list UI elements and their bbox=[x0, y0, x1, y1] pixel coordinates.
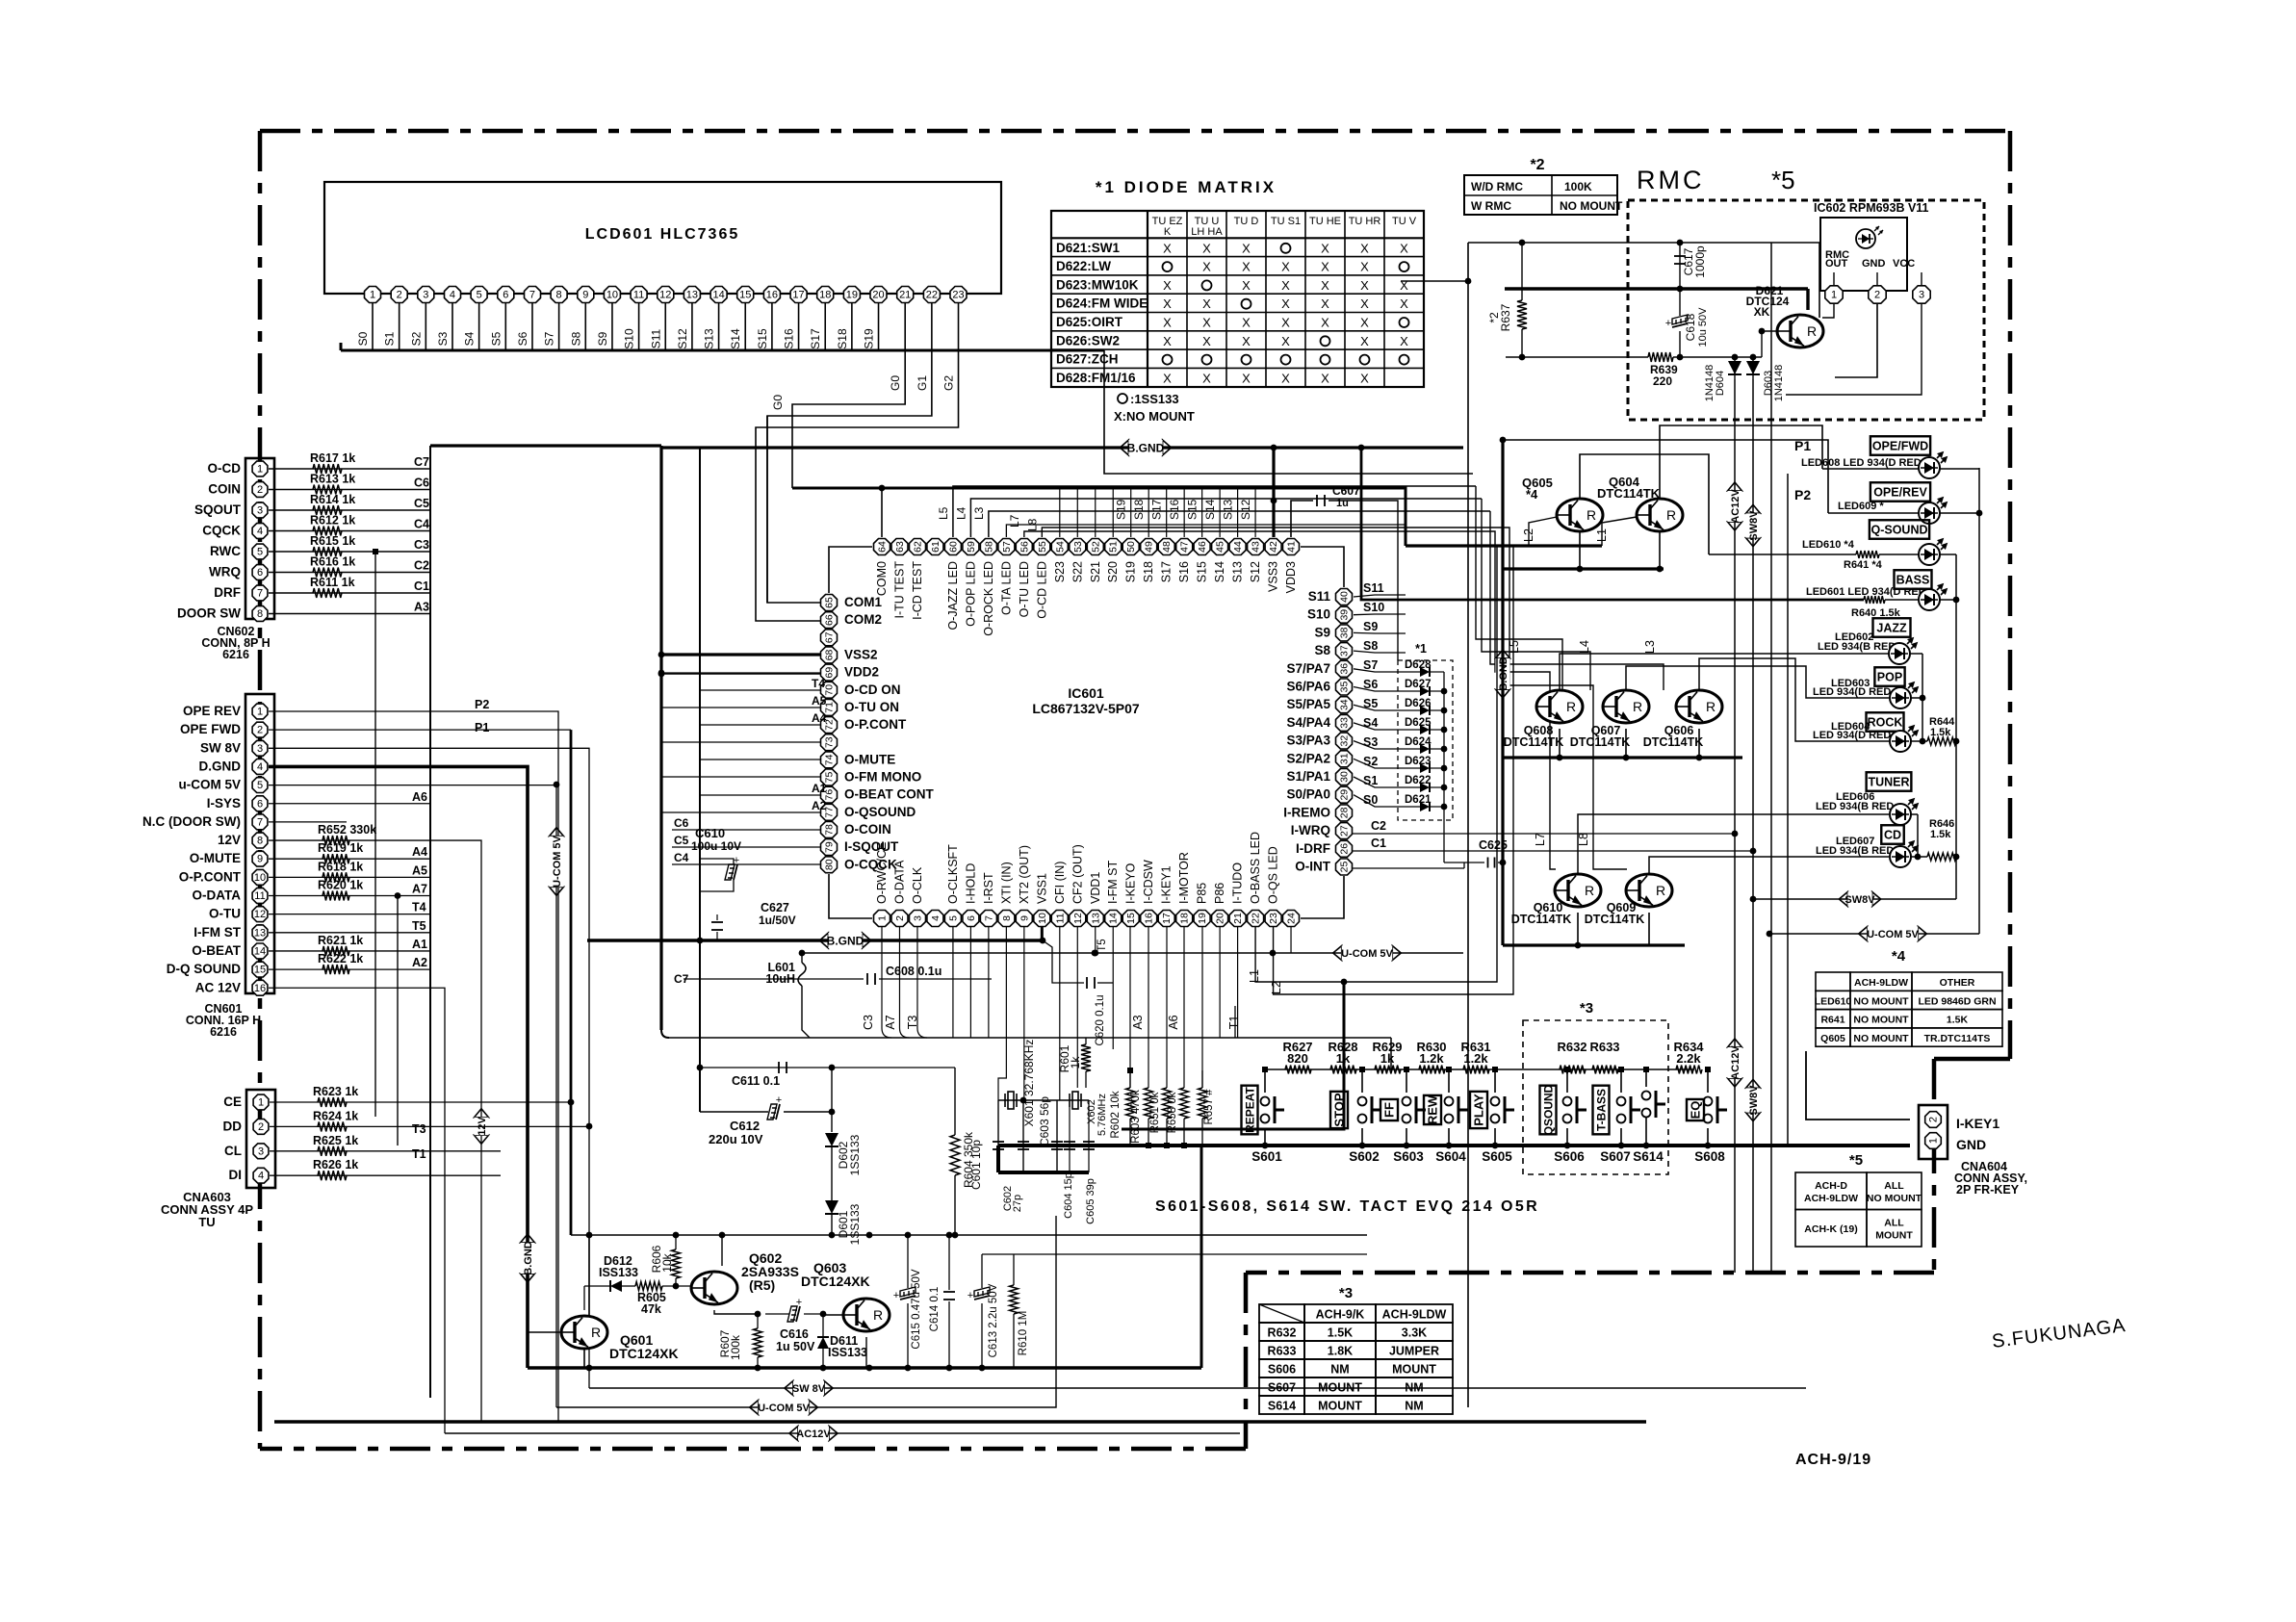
svg-text:P2: P2 bbox=[475, 698, 489, 711]
transistor Q606 DTC114TK bbox=[1676, 690, 1722, 723]
svg-text:DTC114TK: DTC114TK bbox=[1511, 913, 1572, 926]
svg-text:DTC114TK: DTC114TK bbox=[1597, 486, 1661, 501]
CN601 pin 12 bbox=[252, 907, 268, 922]
node C2 bbox=[1353, 833, 1735, 835]
svg-text:40: 40 bbox=[1339, 591, 1351, 603]
svg-text:S15: S15 bbox=[1196, 561, 1209, 582]
svg-text:A2: A2 bbox=[412, 956, 427, 969]
svg-text:ACH-D: ACH-D bbox=[1815, 1180, 1847, 1192]
node A5 bbox=[661, 707, 820, 708]
svg-text:33: 33 bbox=[1339, 717, 1351, 729]
wire collector rail bbox=[571, 1234, 722, 1236]
resistor R631 1.2k bbox=[1463, 1066, 1489, 1074]
svg-text:B.GND: B.GND bbox=[523, 1241, 534, 1275]
wire pin8 to X601 bbox=[998, 927, 1006, 1100]
svg-text:S603: S603 bbox=[1393, 1149, 1424, 1164]
svg-text:I-TUDO: I-TUDO bbox=[1231, 862, 1245, 904]
CN601 pin 9 bbox=[252, 851, 268, 866]
svg-text:13: 13 bbox=[1090, 913, 1101, 924]
node S3 bbox=[1354, 741, 1401, 749]
svg-text:16: 16 bbox=[766, 290, 778, 301]
CNA603 pin 3 bbox=[253, 1144, 269, 1159]
wire base L2 bbox=[1529, 517, 1557, 546]
resistor R602 10k bbox=[1126, 1088, 1135, 1119]
wire L4 O-POP LED bbox=[970, 499, 1482, 537]
wire Q602 collector bbox=[714, 1310, 758, 1314]
svg-text:59: 59 bbox=[966, 541, 977, 553]
svg-text:6216: 6216 bbox=[210, 1025, 237, 1039]
svg-text:B.GND: B.GND bbox=[1127, 441, 1165, 454]
svg-text:LCD601 HLC7365: LCD601 HLC7365 bbox=[585, 226, 740, 243]
svg-text:R610 1M: R610 1M bbox=[1018, 1311, 1029, 1356]
wire L8 O-CD LED bbox=[1042, 528, 1593, 842]
svg-text:31: 31 bbox=[1339, 753, 1351, 764]
capacitor C608 0.1u bbox=[661, 673, 820, 675]
switch S614 T-BASS bbox=[1645, 1069, 1647, 1087]
svg-text:I-WRQ: I-WRQ bbox=[1291, 823, 1330, 837]
svg-text:220: 220 bbox=[1653, 374, 1672, 388]
svg-text:13: 13 bbox=[254, 927, 266, 939]
svg-text:2: 2 bbox=[258, 1121, 264, 1133]
svg-text:I-CDSW: I-CDSW bbox=[1142, 860, 1155, 904]
svg-text:OPE/REV: OPE/REV bbox=[1873, 486, 1927, 500]
svg-text:14: 14 bbox=[712, 290, 724, 301]
node C5 bbox=[672, 846, 820, 848]
LED LED601 bbox=[1919, 589, 1940, 610]
IC601 pin 2 bbox=[891, 911, 908, 927]
svg-text:57: 57 bbox=[1001, 541, 1013, 553]
capacitor C607 1uF bbox=[1316, 495, 1318, 506]
node S10 bbox=[1354, 613, 1406, 616]
IC601 pin 66 bbox=[821, 612, 838, 629]
svg-text:*2: *2 bbox=[1530, 157, 1544, 173]
svg-text:Q605: Q605 bbox=[1820, 1033, 1845, 1044]
svg-text:S20: S20 bbox=[1106, 561, 1120, 582]
wire long verticals bbox=[1467, 281, 1469, 1407]
svg-text:R620 1k: R620 1k bbox=[318, 879, 363, 892]
svg-text:S13: S13 bbox=[1222, 499, 1235, 520]
svg-text:(R5): (R5) bbox=[749, 1277, 775, 1293]
svg-text:S7/PA7: S7/PA7 bbox=[1286, 661, 1330, 676]
svg-text:S602: S602 bbox=[1349, 1149, 1380, 1164]
LCD pin 14 bbox=[710, 287, 727, 303]
CN602 pin 3 bbox=[252, 502, 268, 518]
svg-text:3: 3 bbox=[258, 1146, 264, 1157]
svg-text:4: 4 bbox=[258, 1171, 264, 1182]
svg-text:820: 820 bbox=[1287, 1051, 1308, 1066]
svg-text:X: X bbox=[1202, 371, 1211, 385]
svg-text:W/D RMC: W/D RMC bbox=[1471, 180, 1523, 193]
connector CNA603 CONN ASSY 4P TU bbox=[246, 1090, 275, 1188]
wire POP row right bbox=[1911, 697, 1922, 699]
svg-text:ACH-9LDW: ACH-9LDW bbox=[1804, 1193, 1858, 1204]
svg-text:C614 0.1: C614 0.1 bbox=[929, 1287, 941, 1332]
LED Q-SOUND box bbox=[1870, 520, 1929, 539]
svg-text:14: 14 bbox=[254, 945, 266, 957]
svg-text:19: 19 bbox=[846, 290, 858, 301]
IC601 pin 52 bbox=[1087, 539, 1103, 555]
svg-text:X: X bbox=[1163, 278, 1172, 293]
svg-text:R658 0k: R658 0k bbox=[1167, 1092, 1178, 1133]
wire to B.GND rail bbox=[1467, 243, 1469, 281]
IC601 pin 33 bbox=[1336, 714, 1353, 731]
svg-text:X:NO MOUNT: X:NO MOUNT bbox=[1114, 409, 1195, 424]
wire junction bbox=[373, 549, 378, 554]
wire bbox=[269, 551, 430, 553]
svg-text:67: 67 bbox=[824, 631, 836, 643]
svg-text:S4: S4 bbox=[1363, 716, 1378, 730]
svg-text:S14: S14 bbox=[1203, 499, 1217, 520]
svg-text:TU HE: TU HE bbox=[1309, 216, 1341, 227]
IC601 pin 51 bbox=[1105, 539, 1122, 555]
svg-text:S7: S7 bbox=[1363, 658, 1378, 672]
LCD pin 16 bbox=[763, 287, 780, 303]
svg-text:SW8V: SW8V bbox=[1845, 894, 1875, 906]
resistor R614 1k bbox=[313, 505, 342, 515]
LCD pin 20 bbox=[870, 287, 887, 303]
svg-text:S5/PA5: S5/PA5 bbox=[1286, 697, 1330, 711]
svg-text:VSS2: VSS2 bbox=[844, 647, 878, 661]
svg-text:10: 10 bbox=[1037, 913, 1048, 924]
wire COM0 bbox=[881, 488, 883, 537]
svg-text:LED609 *: LED609 * bbox=[1838, 501, 1884, 512]
svg-text:CQCK: CQCK bbox=[202, 524, 241, 538]
resistor R633 bbox=[1592, 1066, 1618, 1074]
svg-text:32: 32 bbox=[1339, 735, 1351, 747]
wire G1 bbox=[767, 354, 932, 603]
svg-text:A5: A5 bbox=[412, 863, 427, 877]
wire ROCK row right bbox=[1911, 740, 1927, 742]
svg-text:38: 38 bbox=[1339, 627, 1351, 638]
wire risers bbox=[1055, 1216, 1057, 1235]
IC601 pin 45 bbox=[1212, 539, 1228, 555]
IC601 pin 8 bbox=[998, 911, 1015, 927]
svg-text:S3: S3 bbox=[436, 331, 450, 346]
svg-text:ACH-9LDW: ACH-9LDW bbox=[1382, 1308, 1447, 1322]
net U-COM 5V bbox=[550, 828, 564, 896]
svg-text:R641: R641 bbox=[1820, 1015, 1845, 1026]
svg-text:S22: S22 bbox=[1071, 561, 1084, 582]
svg-text:R617 1k: R617 1k bbox=[310, 451, 355, 465]
CN602 pin 2 bbox=[252, 482, 268, 498]
wire pin13 VDD1 bbox=[1095, 927, 1096, 953]
svg-text:9: 9 bbox=[1019, 915, 1030, 921]
svg-text:OUT: OUT bbox=[1825, 258, 1848, 270]
svg-text:P1: P1 bbox=[475, 721, 489, 734]
svg-text:G0: G0 bbox=[889, 375, 902, 391]
svg-text:1: 1 bbox=[257, 464, 263, 476]
svg-text:PLAY: PLAY bbox=[1472, 1094, 1486, 1126]
resistor R601 1k bbox=[1081, 1044, 1091, 1071]
wire pins 15-19 to resistors bbox=[1129, 927, 1131, 1088]
net AC12V bbox=[1728, 1039, 1742, 1087]
svg-text:NO MOUNT: NO MOUNT bbox=[1853, 995, 1909, 1007]
IC601 pin 53 bbox=[1070, 539, 1086, 555]
svg-text:S18: S18 bbox=[836, 328, 849, 349]
svg-text:1SS133: 1SS133 bbox=[848, 1134, 862, 1175]
wire pin24 bbox=[1290, 927, 1292, 953]
svg-text:NM: NM bbox=[1405, 1381, 1423, 1395]
IC601 pin 31 bbox=[1336, 751, 1353, 767]
IC601 pin 17 bbox=[1158, 911, 1174, 927]
node S9 bbox=[1354, 631, 1406, 634]
IC601 pin 55 bbox=[1034, 539, 1050, 555]
IC601 pin 76 bbox=[821, 786, 838, 803]
svg-text:CE: CE bbox=[223, 1094, 242, 1109]
svg-text:R603 470k: R603 470k bbox=[1130, 1090, 1142, 1144]
svg-text:+: + bbox=[734, 855, 739, 866]
svg-text:VCC: VCC bbox=[1893, 258, 1915, 270]
svg-text:47k: 47k bbox=[641, 1302, 661, 1316]
svg-text:S17: S17 bbox=[1160, 561, 1174, 582]
svg-text:16: 16 bbox=[254, 983, 266, 994]
svg-text:S2: S2 bbox=[409, 331, 423, 346]
svg-text:O-P.CONT: O-P.CONT bbox=[844, 717, 907, 732]
svg-text:L7: L7 bbox=[1534, 833, 1547, 846]
svg-text:C6: C6 bbox=[414, 476, 429, 490]
IC601 pin 5 bbox=[944, 911, 961, 927]
CN602 pin 6 bbox=[252, 565, 268, 580]
svg-text:*3: *3 bbox=[1339, 1285, 1353, 1301]
svg-text:OTHER: OTHER bbox=[1940, 977, 1975, 989]
transistor Q605 *4 bbox=[1557, 499, 1603, 531]
svg-text:28: 28 bbox=[1339, 807, 1351, 818]
CN601 pin 1 bbox=[252, 704, 268, 719]
wire diode bus bbox=[1443, 672, 1445, 807]
resistor R652 330k bbox=[322, 836, 349, 845]
svg-text:D627: D627 bbox=[1405, 679, 1432, 690]
svg-text:13: 13 bbox=[686, 290, 698, 301]
LCD pin 21 bbox=[897, 287, 914, 303]
resistor R607 100k bbox=[754, 1328, 762, 1357]
svg-text:P85: P85 bbox=[1196, 883, 1209, 904]
node S0 bbox=[1354, 795, 1401, 807]
svg-text:20: 20 bbox=[872, 290, 884, 301]
IC601 pin 1 bbox=[874, 911, 890, 927]
svg-text:R625 1k: R625 1k bbox=[313, 1134, 358, 1147]
svg-text:S2/PA2: S2/PA2 bbox=[1286, 751, 1330, 765]
wire T1 riser bbox=[1234, 1006, 1236, 1038]
svg-text:D622:LW: D622:LW bbox=[1056, 259, 1111, 273]
LED OPE/FWD box bbox=[1870, 436, 1930, 455]
svg-text:S6: S6 bbox=[516, 331, 529, 346]
svg-text:SW8V: SW8V bbox=[1748, 1085, 1760, 1116]
svg-text:VSS1: VSS1 bbox=[1035, 873, 1048, 904]
RMC dashed enclosure bbox=[1628, 200, 1984, 420]
svg-text:S15: S15 bbox=[1186, 499, 1200, 520]
IC601 pin 59 bbox=[963, 539, 979, 555]
svg-text:LH HA: LH HA bbox=[1191, 226, 1223, 238]
IC601 pin 18 bbox=[1176, 911, 1193, 927]
wire 12V bbox=[269, 840, 481, 1422]
svg-text:2: 2 bbox=[894, 915, 906, 921]
svg-text:S19: S19 bbox=[863, 328, 876, 349]
wire ground bus Q601 bbox=[528, 1366, 1201, 1370]
wire bbox=[1833, 272, 1835, 285]
svg-text:X: X bbox=[1360, 260, 1369, 274]
wire O-TA LED bbox=[1006, 525, 1406, 537]
resistor R641 *4 bbox=[1856, 551, 1879, 558]
svg-text:X: X bbox=[1163, 296, 1172, 311]
svg-text:LED 934(B RED: LED 934(B RED bbox=[1816, 801, 1894, 812]
svg-text:S614: S614 bbox=[1268, 1400, 1296, 1413]
svg-text:15: 15 bbox=[254, 965, 266, 976]
svg-text:S1: S1 bbox=[383, 331, 397, 346]
svg-text:X: X bbox=[1400, 334, 1408, 348]
svg-text:66: 66 bbox=[824, 614, 836, 626]
svg-text:TUNER: TUNER bbox=[1868, 776, 1909, 789]
svg-text::1SS133: :1SS133 bbox=[1130, 392, 1179, 406]
svg-text:O-DATA: O-DATA bbox=[892, 860, 906, 904]
svg-text:P86: P86 bbox=[1213, 883, 1226, 904]
svg-text:O-CLK: O-CLK bbox=[911, 866, 924, 904]
node C1 bbox=[1353, 850, 1753, 852]
LCD601 HLC7365 display block bbox=[324, 182, 1001, 294]
svg-text:O-JAZZ LED: O-JAZZ LED bbox=[946, 561, 960, 631]
wire TUNER row right bbox=[1911, 813, 1918, 815]
svg-text:61: 61 bbox=[930, 541, 942, 553]
svg-text:X: X bbox=[1281, 278, 1290, 293]
svg-text:S23: S23 bbox=[1053, 561, 1067, 582]
IC601 pin 80 bbox=[821, 857, 838, 873]
resistor R623 1k bbox=[270, 1101, 571, 1103]
svg-text:ALL: ALL bbox=[1884, 1217, 1904, 1228]
CN602 pin 8 bbox=[252, 606, 268, 622]
resistor R634 2.2k bbox=[1676, 1066, 1702, 1074]
svg-text:27p: 27p bbox=[1012, 1195, 1023, 1212]
svg-text:TU V: TU V bbox=[1392, 216, 1417, 227]
svg-text:A6: A6 bbox=[412, 790, 427, 804]
svg-text:O-TU ON: O-TU ON bbox=[844, 700, 899, 714]
LCD pin 4 bbox=[445, 287, 461, 303]
resistor R618 1k bbox=[322, 872, 349, 882]
svg-text:6216: 6216 bbox=[222, 648, 249, 661]
svg-text:TU D: TU D bbox=[1234, 216, 1259, 227]
wire LED610 row bbox=[1709, 554, 1856, 555]
wire ground bus bbox=[998, 1171, 1089, 1174]
svg-text:A7: A7 bbox=[412, 883, 427, 896]
svg-text:6: 6 bbox=[257, 798, 263, 810]
svg-text:K: K bbox=[1164, 226, 1172, 238]
wire OPE REV bbox=[269, 710, 547, 712]
IC601 pin 57 bbox=[998, 539, 1015, 555]
wire Q604 collector to LED608 bbox=[1660, 425, 1822, 499]
svg-text:T4: T4 bbox=[412, 901, 426, 914]
capacitor C615 0.47u 50V bbox=[900, 1287, 916, 1300]
svg-text:2.2k: 2.2k bbox=[1676, 1051, 1701, 1066]
CN601 pin 2 bbox=[252, 722, 268, 737]
svg-text:O-MUTE: O-MUTE bbox=[844, 752, 895, 766]
wire switch common bus bbox=[998, 1144, 1788, 1147]
svg-text:LED610 *4: LED610 *4 bbox=[1802, 539, 1855, 551]
diode matrix dashed box *1 bbox=[1398, 660, 1453, 820]
transistor Q603 DTC124XK bbox=[843, 1299, 890, 1331]
svg-text:18: 18 bbox=[819, 290, 831, 301]
net AC12V bbox=[1728, 482, 1742, 530]
switch S608 EQ bbox=[1707, 1069, 1709, 1093]
resistor R621 1k bbox=[322, 946, 349, 956]
IC601 pin 64 bbox=[874, 539, 890, 555]
svg-text:O-CD LED: O-CD LED bbox=[1035, 561, 1048, 619]
diode matrix table bbox=[1051, 211, 1424, 387]
svg-text:D624: D624 bbox=[1405, 736, 1432, 748]
wire top rail2 bbox=[722, 1234, 1367, 1236]
svg-text:S601-S608, S614 SW. TACT EVQ 2: S601-S608, S614 SW. TACT EVQ 214 O5R bbox=[1155, 1198, 1539, 1215]
svg-text:45: 45 bbox=[1215, 541, 1226, 553]
wire bbox=[269, 489, 430, 491]
dashed option box *3 bbox=[1523, 1020, 1668, 1174]
LCD pin 7 bbox=[525, 287, 541, 303]
IC601 pin 21 bbox=[1229, 911, 1246, 927]
svg-text:I-HOLD: I-HOLD bbox=[964, 863, 977, 904]
node C6 bbox=[672, 829, 820, 831]
svg-text:ACH-9LDW: ACH-9LDW bbox=[1854, 977, 1908, 989]
svg-text:C4: C4 bbox=[674, 851, 689, 864]
resistor R622 1k bbox=[322, 965, 349, 974]
svg-text:X: X bbox=[1321, 296, 1329, 311]
wire AC 12V bbox=[269, 988, 445, 1433]
svg-text:69: 69 bbox=[824, 667, 836, 679]
svg-text:21: 21 bbox=[899, 290, 911, 301]
svg-text:49: 49 bbox=[1144, 541, 1155, 553]
resistor R610 1M bbox=[1010, 1285, 1019, 1314]
switch S603 FF bbox=[1406, 1069, 1407, 1093]
svg-text:X: X bbox=[1321, 316, 1329, 330]
svg-text:R657 #: R657 # bbox=[1203, 1089, 1215, 1125]
svg-text:O-CQCK: O-CQCK bbox=[844, 857, 897, 871]
svg-text:100u 10V: 100u 10V bbox=[691, 839, 741, 853]
transistor Q602 2SA933S bbox=[691, 1272, 737, 1304]
node T4 bbox=[700, 689, 820, 691]
svg-text:C2: C2 bbox=[1371, 819, 1386, 833]
svg-text:S604: S604 bbox=[1435, 1149, 1466, 1164]
wire G2 bbox=[756, 354, 959, 621]
wire bbox=[1023, 1099, 1057, 1101]
IC601 pin 27 bbox=[1336, 823, 1353, 839]
resistor R624 1k bbox=[270, 1125, 589, 1127]
svg-text:OPE REV: OPE REV bbox=[183, 704, 241, 718]
svg-text:T5: T5 bbox=[412, 919, 426, 933]
diode D611 ISS133 bbox=[817, 1337, 829, 1349]
LED LED602 bbox=[1889, 643, 1910, 664]
svg-text:D628: D628 bbox=[1405, 659, 1432, 671]
wire bbox=[269, 592, 430, 594]
svg-text:1k: 1k bbox=[1069, 1056, 1082, 1069]
svg-text:27: 27 bbox=[1339, 825, 1351, 837]
svg-text:T5: T5 bbox=[1096, 939, 1108, 951]
svg-text:2: 2 bbox=[1874, 290, 1880, 301]
svg-text:S601: S601 bbox=[1251, 1149, 1282, 1164]
wire LED609 row bbox=[1828, 512, 1919, 514]
resistor R606 10k bbox=[672, 1249, 681, 1278]
IC601 pin 7 bbox=[980, 911, 996, 927]
svg-text:14: 14 bbox=[1108, 913, 1120, 924]
IC601 pin 46 bbox=[1194, 539, 1210, 555]
svg-text:MOUNT: MOUNT bbox=[1875, 1229, 1913, 1241]
svg-text:7: 7 bbox=[529, 290, 535, 301]
IC601 pin 26 bbox=[1336, 840, 1353, 857]
svg-text:S0/PA0: S0/PA0 bbox=[1286, 787, 1330, 802]
svg-text:D627:ZCH: D627:ZCH bbox=[1056, 352, 1119, 367]
capacitor C611 0.1 bbox=[700, 1067, 955, 1068]
resistor R620 1k bbox=[322, 891, 349, 901]
svg-text:51: 51 bbox=[1108, 541, 1120, 553]
svg-text:*4: *4 bbox=[1892, 948, 1906, 965]
CN601 pin 14 bbox=[252, 943, 268, 959]
capacitor C602 27p bbox=[1022, 1100, 1024, 1172]
node A4 bbox=[700, 724, 820, 726]
svg-text:NO MOUNT: NO MOUNT bbox=[1867, 1193, 1922, 1204]
